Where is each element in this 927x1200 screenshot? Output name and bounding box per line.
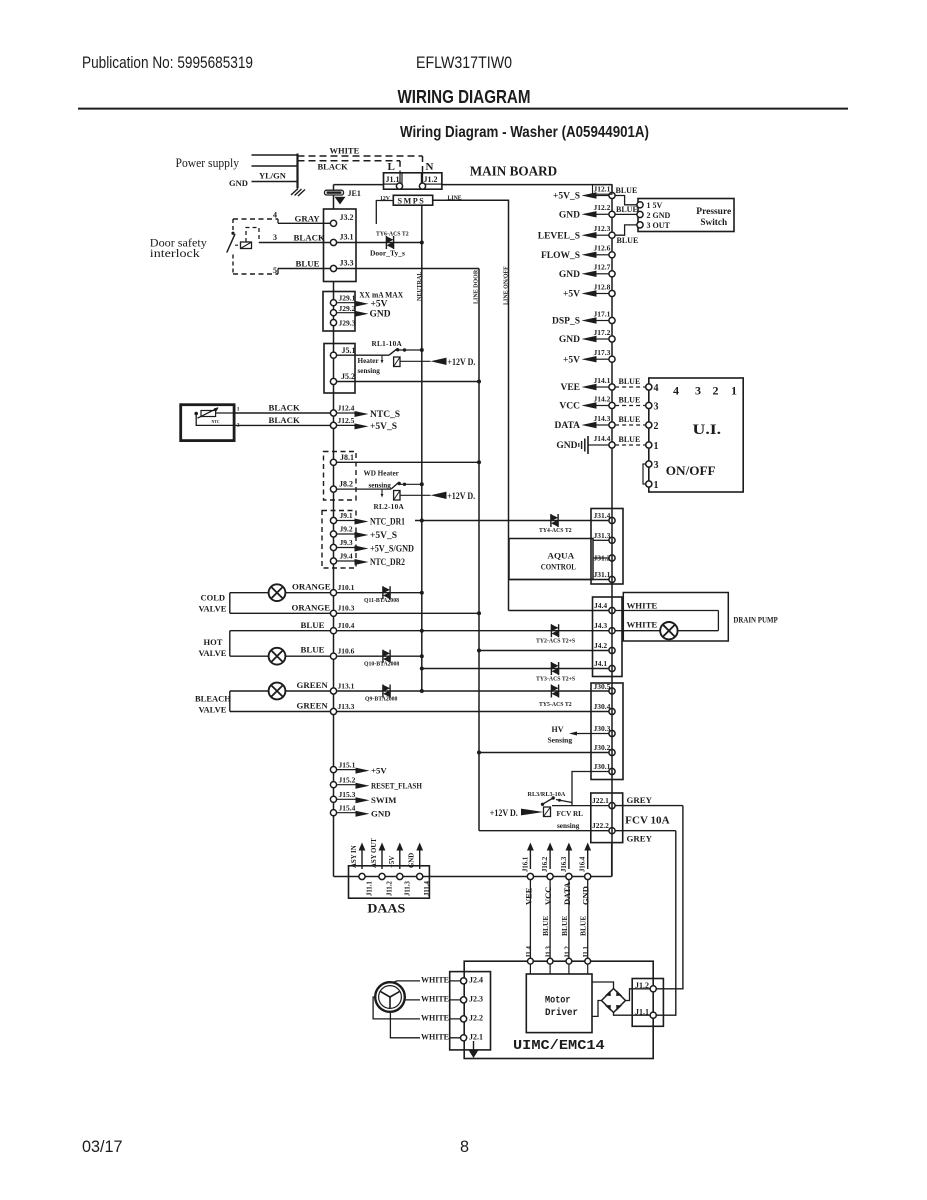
UI pin 1 xyxy=(615,444,646,446)
svg-text:L: L xyxy=(388,161,395,173)
ground symbol power supply xyxy=(297,182,299,189)
pin J17.3 +5V xyxy=(596,358,609,360)
svg-text:ON/OFF: ON/OFF xyxy=(666,464,716,478)
wire J4.2 from line door xyxy=(479,650,609,652)
pin J29.1 xyxy=(330,300,336,306)
wire N into J1.2 xyxy=(422,171,424,187)
door interlock coil xyxy=(241,242,252,249)
wire J31.2 xyxy=(593,557,609,559)
svg-text:J9.3: J9.3 xyxy=(340,538,353,547)
svg-text:J9.1: J9.1 xyxy=(340,511,353,520)
pin J14.3 DATA xyxy=(596,424,609,426)
svg-text:+5V: +5V xyxy=(371,300,388,310)
connector J3 xyxy=(324,209,357,282)
svg-text:J14.4: J14.4 xyxy=(594,434,611,443)
motor driver box xyxy=(526,974,592,1033)
svg-text:J4.3: J4.3 xyxy=(594,621,607,630)
pin J1.1 xyxy=(396,183,402,189)
bleach valve loop xyxy=(229,691,231,712)
svg-text:JE1: JE1 xyxy=(348,189,361,198)
svg-text:U.I.: U.I. xyxy=(693,422,722,438)
pin J11.4 xyxy=(417,873,423,879)
svg-text:WHITE: WHITE xyxy=(627,620,658,630)
svg-text:+5V_S: +5V_S xyxy=(370,422,397,432)
svg-text:WHITE: WHITE xyxy=(330,146,360,156)
connector J8 dashed xyxy=(324,452,357,501)
svg-text:J1.2: J1.2 xyxy=(635,981,649,990)
triac TY6-ACS T2 xyxy=(385,236,387,249)
pin J17.1 DSP_S xyxy=(596,320,609,322)
connector J9 dashed xyxy=(322,511,356,569)
pin J9.3 xyxy=(330,544,336,550)
svg-text:CONTROL: CONTROL xyxy=(541,562,576,572)
pin J15.3 xyxy=(330,796,336,802)
svg-text:J15.1: J15.1 xyxy=(339,760,356,769)
pin J2.1 xyxy=(461,1035,467,1041)
connector J1 motor xyxy=(632,979,663,1027)
pin J8.1 xyxy=(330,459,336,465)
svg-text:03/17: 03/17 xyxy=(82,1138,123,1156)
svg-text:J9.4: J9.4 xyxy=(340,552,353,561)
pin J30.1 xyxy=(609,768,615,774)
svg-text:J12.7: J12.7 xyxy=(594,263,611,272)
module AQUA CONTROL xyxy=(509,539,593,580)
UI pin 2 xyxy=(615,424,646,426)
fuse JE1 xyxy=(333,185,335,190)
svg-text:J9.2: J9.2 xyxy=(340,525,353,534)
pin J22.1 xyxy=(609,803,615,809)
svg-text:J12.3: J12.3 xyxy=(594,224,611,233)
motor symbol xyxy=(375,982,405,1012)
pin J4.1 xyxy=(609,665,615,671)
arrow J29.1 +5V xyxy=(337,302,355,304)
svg-text:RL2-10A: RL2-10A xyxy=(374,503,405,511)
pin J22.2 xyxy=(609,828,615,834)
svg-text:J4.1: J4.1 xyxy=(594,659,607,668)
svg-text:SMPS: SMPS xyxy=(398,196,426,205)
svg-text:J22.1: J22.1 xyxy=(592,796,609,805)
svg-text:BLUE: BLUE xyxy=(560,916,569,936)
svg-text:FLOW_S: FLOW_S xyxy=(541,251,580,261)
svg-text:5: 5 xyxy=(273,266,277,275)
pin J5.1 xyxy=(330,352,336,358)
svg-text:J10.6: J10.6 xyxy=(338,647,355,656)
svg-text:GREEN: GREEN xyxy=(297,701,329,711)
arrow GND xyxy=(419,850,421,870)
svg-text:J12.2: J12.2 xyxy=(594,203,611,212)
pin J8.2 xyxy=(330,486,336,492)
svg-text:WD Heater: WD Heater xyxy=(364,470,400,478)
connector DAAS box xyxy=(349,866,430,898)
wire J31.3 xyxy=(593,539,609,541)
triac Q10-BTA2008 xyxy=(382,650,384,663)
svg-text:J1.4: J1.4 xyxy=(526,946,533,958)
sensor NTC box xyxy=(181,405,234,441)
arrow J29.2 GND xyxy=(337,312,355,314)
svg-text:J31.1: J31.1 xyxy=(594,570,611,579)
pin J31.4 xyxy=(609,517,615,523)
pin pressure 2 xyxy=(637,211,643,217)
svg-text:J22.2: J22.2 xyxy=(592,821,609,830)
bus bottom xyxy=(334,876,612,878)
triac TY4-ACS T2 xyxy=(550,514,552,527)
svg-text:sensing: sensing xyxy=(369,482,392,490)
svg-text:BLUE: BLUE xyxy=(619,415,641,424)
svg-text:LEVEL_S: LEVEL_S xyxy=(538,231,580,241)
pin J2.4 xyxy=(461,978,467,984)
arrow ASY OUT xyxy=(381,850,383,870)
svg-text:Pressure: Pressure xyxy=(696,207,731,217)
pin J30.5 xyxy=(609,688,615,694)
pin J10.6 xyxy=(330,653,336,659)
svg-text:Q10-BTA2008: Q10-BTA2008 xyxy=(364,662,399,668)
svg-text:J1.1: J1.1 xyxy=(386,175,400,184)
svg-text:GND: GND xyxy=(370,310,391,320)
svg-text:Driver: Driver xyxy=(545,1007,578,1019)
pin J30.3 xyxy=(609,730,615,736)
svg-text:GND: GND xyxy=(229,178,248,188)
thermistor symbol xyxy=(201,411,216,417)
svg-text:J12.1: J12.1 xyxy=(594,184,611,193)
svg-text:4: 4 xyxy=(673,384,679,398)
pin J4.3 xyxy=(609,628,615,634)
power module SMPS xyxy=(393,195,432,205)
svg-text:Motor: Motor xyxy=(545,995,571,1007)
pin J30.4 xyxy=(609,708,615,714)
svg-text:WHITE: WHITE xyxy=(421,975,449,984)
pin UIMC top xyxy=(528,958,534,964)
wire GRAY door 4 xyxy=(233,218,278,220)
UI pin 4 xyxy=(615,386,646,388)
svg-text:3: 3 xyxy=(654,401,659,412)
svg-text:J14.1: J14.1 xyxy=(594,376,611,385)
svg-text:J11.2: J11.2 xyxy=(387,880,394,896)
UI on/off pins bracket xyxy=(643,464,646,484)
wire J3.1 to neutral with triac TY6 xyxy=(337,242,422,244)
triac TY5-ACS T2 xyxy=(550,685,552,698)
svg-text:VEE: VEE xyxy=(560,383,580,393)
svg-text:VALVE: VALVE xyxy=(199,648,227,658)
wire BLUE door 5 xyxy=(233,273,278,275)
svg-text:BLUE: BLUE xyxy=(301,620,325,630)
main board top wire xyxy=(334,184,384,186)
svg-text:GND: GND xyxy=(559,211,580,221)
wire J16.3 down xyxy=(568,880,570,962)
svg-text:3: 3 xyxy=(273,233,277,242)
svg-text:+12V D.: +12V D. xyxy=(447,492,475,502)
svg-text:GND: GND xyxy=(556,441,577,451)
wire ORANGE J10.1 xyxy=(230,592,422,594)
svg-text:2: 2 xyxy=(713,384,719,398)
svg-text:J31.3: J31.3 xyxy=(594,531,611,540)
triac TY2-ACS T2+S xyxy=(550,624,552,637)
wire J30.1 to FCV relay xyxy=(572,772,609,803)
svg-text:NTC: NTC xyxy=(212,420,220,424)
svg-text:BLUE: BLUE xyxy=(619,396,641,405)
svg-text:J15.3: J15.3 xyxy=(339,790,356,799)
svg-text:J17.1: J17.1 xyxy=(594,309,611,318)
pin J11.2 xyxy=(379,873,385,879)
svg-text:J30.4: J30.4 xyxy=(594,702,611,711)
svg-text:GND: GND xyxy=(559,335,580,345)
svg-text:J3.3: J3.3 xyxy=(340,259,354,268)
svg-text:J1.2: J1.2 xyxy=(564,946,571,958)
wire WHITE dashed to N xyxy=(298,155,423,157)
pin J2.2 xyxy=(461,1016,467,1022)
pin J14.4 GND xyxy=(596,444,609,446)
wire LINE to on/off bus xyxy=(433,200,509,610)
power supply leads xyxy=(252,154,298,156)
svg-text:N: N xyxy=(426,161,434,173)
wire WHITE motor J2.3 xyxy=(405,999,461,1001)
svg-text:2: 2 xyxy=(237,423,240,429)
pin J9.2 xyxy=(330,531,336,537)
svg-text:1 5V: 1 5V xyxy=(647,201,663,210)
pin J3.1 xyxy=(330,239,336,245)
svg-text:TY6-ACS T2: TY6-ACS T2 xyxy=(376,232,409,238)
wire J9.1 row to TY4 and J31.4 xyxy=(415,520,609,522)
bus left main xyxy=(333,282,335,877)
bus line door xyxy=(478,269,480,831)
arrow J16.4 xyxy=(587,850,589,870)
svg-text:3: 3 xyxy=(654,460,659,471)
svg-text:COLD: COLD xyxy=(201,593,226,603)
svg-text:J30.1: J30.1 xyxy=(594,762,611,771)
pin J10.4 xyxy=(330,628,336,634)
pin J9.1 xyxy=(330,517,336,523)
svg-text:1: 1 xyxy=(731,384,737,398)
wire BLUE J10.6 xyxy=(230,655,422,657)
svg-text:Door_Ty_s: Door_Ty_s xyxy=(370,249,405,258)
ground arrow below J2 xyxy=(473,1041,475,1051)
pin J10.1 xyxy=(330,590,336,596)
svg-text:Heater: Heater xyxy=(358,357,380,365)
wire L into J1.1 xyxy=(399,171,401,187)
svg-text:J12.6: J12.6 xyxy=(594,244,611,253)
wire WHITE motor J2.4 xyxy=(392,981,461,983)
svg-text:J5.2: J5.2 xyxy=(341,372,355,381)
pin J3.3 xyxy=(330,265,336,271)
svg-text:BLACK: BLACK xyxy=(269,403,300,413)
wire BLUE J10.4 to TY2 and J4.3 xyxy=(230,630,609,632)
svg-text:BLACK: BLACK xyxy=(318,162,349,172)
svg-text:J2.1: J2.1 xyxy=(469,1032,483,1041)
svg-text:ORANGE: ORANGE xyxy=(292,603,331,613)
svg-text:J14.3: J14.3 xyxy=(594,414,611,423)
wire WHITE drain bottom xyxy=(615,630,660,632)
svg-text:TY4-ACS T2: TY4-ACS T2 xyxy=(539,528,572,534)
wire J30.2 from line door xyxy=(479,752,609,754)
svg-text:ORANGE: ORANGE xyxy=(292,582,331,592)
svg-text:J2.3: J2.3 xyxy=(469,994,483,1003)
svg-text:VALVE: VALVE xyxy=(199,705,227,715)
svg-text:+5V_S: +5V_S xyxy=(370,531,397,541)
svg-text:GND: GND xyxy=(409,853,416,868)
relay RL1 coil xyxy=(394,357,400,367)
svg-text:BLUE: BLUE xyxy=(619,435,641,444)
svg-text:BLUE: BLUE xyxy=(301,645,325,655)
wire motor driver to bridge lower xyxy=(592,1001,602,1017)
wire J31.1 xyxy=(509,579,609,581)
pin J31.3 xyxy=(609,537,615,543)
pin J16.2 xyxy=(547,873,553,879)
svg-text:XX mA MAX: XX mA MAX xyxy=(359,290,404,300)
cold valve coil xyxy=(269,584,286,601)
svg-text:HOT: HOT xyxy=(204,637,223,647)
svg-text:Switch: Switch xyxy=(700,218,727,228)
svg-text:J11.1: J11.1 xyxy=(367,880,374,896)
wire GREY J22.1 xyxy=(615,805,683,807)
svg-text:BLUE: BLUE xyxy=(616,205,638,214)
svg-text:Q9-BTA2008: Q9-BTA2008 xyxy=(365,697,398,703)
svg-text:BLUE: BLUE xyxy=(296,259,320,269)
wire WHITE motor J2.2 xyxy=(373,997,460,1019)
pin J12.4 xyxy=(330,410,336,416)
svg-text:J12.5: J12.5 xyxy=(338,416,355,425)
svg-text:J31.2: J31.2 xyxy=(594,554,611,563)
pin J13.3 xyxy=(330,708,336,714)
connector J29 xyxy=(323,292,355,332)
box around J12.1 label xyxy=(593,185,613,195)
pin J31.1 xyxy=(609,576,615,582)
svg-text:+5V: +5V xyxy=(563,355,580,365)
svg-text:sensing: sensing xyxy=(358,367,381,375)
arrow J16.1 xyxy=(529,850,531,870)
pin J15.1 xyxy=(330,767,336,773)
wire WHITE drain top xyxy=(615,610,718,612)
drain pump box xyxy=(623,593,728,642)
svg-text:DRAIN PUMP: DRAIN PUMP xyxy=(733,615,778,625)
wire to J22.1 xyxy=(571,803,573,806)
svg-text:J13.3: J13.3 xyxy=(338,702,355,711)
svg-text:J12.4: J12.4 xyxy=(338,404,355,413)
wire bridge to J1.1 xyxy=(614,1013,651,1016)
wire GREEN J13.3 to J30.4 xyxy=(230,711,609,713)
svg-text:BLUE: BLUE xyxy=(541,916,550,936)
svg-text:J1.2: J1.2 xyxy=(424,175,438,184)
wire +12V D. to RL2 xyxy=(400,494,431,496)
pin UIMC top xyxy=(566,958,572,964)
svg-text:DATA: DATA xyxy=(554,421,580,431)
svg-text:4: 4 xyxy=(654,383,659,394)
svg-text:J15.4: J15.4 xyxy=(339,803,356,812)
wire BLACK door 3 xyxy=(259,242,334,244)
svg-text:2 GND: 2 GND xyxy=(647,211,671,220)
hot valve coil xyxy=(269,648,286,665)
pin J15.2 xyxy=(330,782,336,788)
svg-text:RESET_FLASH: RESET_FLASH xyxy=(371,781,422,791)
pin J30.2 xyxy=(609,749,615,755)
arrow +5V xyxy=(399,850,401,870)
svg-text:BLUE: BLUE xyxy=(619,377,641,386)
svg-text:BLUE: BLUE xyxy=(616,186,638,195)
pin J12.5 xyxy=(330,422,336,428)
svg-text:J11.3: J11.3 xyxy=(404,880,411,896)
svg-text:J12.8: J12.8 xyxy=(594,282,611,291)
svg-text:NTC_DR2: NTC_DR2 xyxy=(370,558,405,568)
svg-text:J1.3: J1.3 xyxy=(546,946,553,958)
svg-text:J10.1: J10.1 xyxy=(338,583,355,592)
svg-text:3 OUT: 3 OUT xyxy=(647,221,671,230)
connector J5 xyxy=(324,344,355,394)
pin UIMC top xyxy=(585,958,591,964)
svg-text:4: 4 xyxy=(273,211,277,220)
arrow J16.3 xyxy=(568,850,570,870)
svg-text:GRAY: GRAY xyxy=(295,214,321,224)
svg-text:RL3/RL3-10A: RL3/RL3-10A xyxy=(528,791,566,798)
svg-text:J14.2: J14.2 xyxy=(594,394,611,403)
pin J2.3 xyxy=(461,997,467,1003)
svg-text:FCV RL: FCV RL xyxy=(557,810,584,818)
svg-text:J10.3: J10.3 xyxy=(338,604,355,613)
pin J29.3 xyxy=(330,320,336,326)
svg-text:J17.2: J17.2 xyxy=(594,328,611,337)
svg-text:J29.2: J29.2 xyxy=(339,304,356,313)
svg-text:J29.1: J29.1 xyxy=(339,294,356,303)
relay RL3 coil xyxy=(544,807,551,817)
arrow below JE1 xyxy=(335,197,346,205)
pin J14.2 VCC xyxy=(596,405,609,407)
bus right main xyxy=(611,185,613,877)
wire J16.4 down xyxy=(587,880,589,962)
pin J11.1 xyxy=(359,873,365,879)
svg-text:Sensing: Sensing xyxy=(548,736,573,745)
svg-text:GREEN: GREEN xyxy=(297,680,329,690)
svg-text:VEE: VEE xyxy=(523,887,533,905)
triac TY3-ACS T2+S xyxy=(550,662,552,675)
svg-text:GREY: GREY xyxy=(627,834,653,844)
svg-text:+12V D.: +12V D. xyxy=(447,358,475,368)
pin J17.2 GND xyxy=(596,338,609,340)
svg-text:+5V_S: +5V_S xyxy=(553,192,580,202)
connector J2 xyxy=(450,972,491,1050)
pin J16.3 xyxy=(566,873,572,879)
svg-text:AQUA: AQUA xyxy=(547,551,575,561)
pin J29.2 xyxy=(330,310,336,316)
wire ORANGE J10.3 xyxy=(230,612,479,614)
wire J16.2 down xyxy=(549,880,551,962)
svg-text:Publication No: 5995685319: Publication No: 5995685319 xyxy=(82,54,253,72)
svg-text:J16.3: J16.3 xyxy=(561,856,568,872)
header rule xyxy=(78,108,848,110)
svg-text:J1.1: J1.1 xyxy=(583,946,590,958)
wire GREY vertical to J1.2 xyxy=(656,806,683,989)
svg-text:NTC_DR1: NTC_DR1 xyxy=(370,517,405,527)
svg-text:Power supply: Power supply xyxy=(176,156,240,170)
bus neutral xyxy=(421,205,423,691)
svg-text:GND: GND xyxy=(581,886,591,905)
connector J4 xyxy=(593,597,623,677)
svg-text:3: 3 xyxy=(695,384,701,398)
svg-text:BLUE: BLUE xyxy=(579,916,588,936)
bleach valve coil xyxy=(269,683,286,700)
relay RL2 coil xyxy=(394,491,400,501)
bridge rectifier xyxy=(602,989,626,1013)
svg-text:NTC_S: NTC_S xyxy=(370,410,400,420)
svg-text:RL1-10A: RL1-10A xyxy=(372,340,403,348)
svg-text:WHITE: WHITE xyxy=(421,1032,449,1041)
svg-text:FCV 10A: FCV 10A xyxy=(625,815,669,827)
svg-text:J2.2: J2.2 xyxy=(469,1013,483,1022)
connector J22 xyxy=(591,793,623,843)
svg-text:J3.1: J3.1 xyxy=(340,233,354,242)
wire BLACK NTC 2 xyxy=(234,424,333,426)
arrow J16.2 xyxy=(549,850,551,870)
arrow ASY IN xyxy=(361,850,363,870)
module UIMC/EMC14 box xyxy=(464,961,653,1058)
pin J12.6 FLOW_S xyxy=(596,254,609,256)
svg-text:J8.2: J8.2 xyxy=(339,480,353,489)
